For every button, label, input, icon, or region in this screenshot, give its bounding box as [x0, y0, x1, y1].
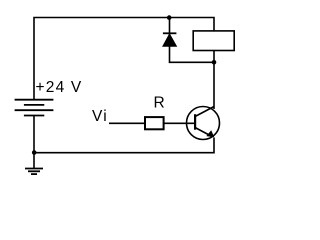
svg-text:R: R — [154, 94, 165, 111]
svg-text:+24 V: +24 V — [36, 79, 83, 96]
svg-text:Vi: Vi — [92, 108, 108, 125]
